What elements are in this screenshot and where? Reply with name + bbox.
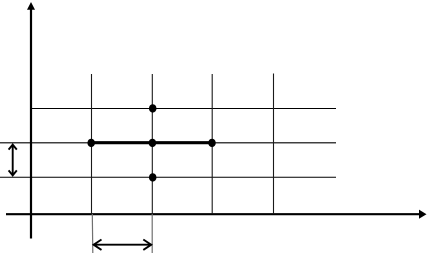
horizontal spacing double arrow (delta x) [94,240,152,250]
node (i+1,j) [208,139,216,147]
horizontal grid line y=j-1 [0,176,336,178]
node (i,j+1) [149,104,157,112]
horizontal grid line y=j (thin full) [0,142,336,144]
vertical spacing double arrow (delta y) [9,145,17,176]
x-axis [6,210,427,219]
node (i,j) [149,139,157,147]
y-axis [27,2,35,239]
node (i,j-1) [149,173,157,181]
vertical grid line x=i-1 extension below axis [91,214,94,253]
thick stencil segment [91,141,212,144]
vertical grid line x=i+2 [273,74,275,214]
vertical grid line x=i extension below axis [151,214,153,253]
node (i-1,j) [87,139,95,147]
vertical grid line x=i [151,74,153,214]
vertical grid line x=i+1 [211,74,213,213]
horizontal grid line y=j+1 [31,108,337,110]
vertical grid line x=i-1 [91,74,93,214]
